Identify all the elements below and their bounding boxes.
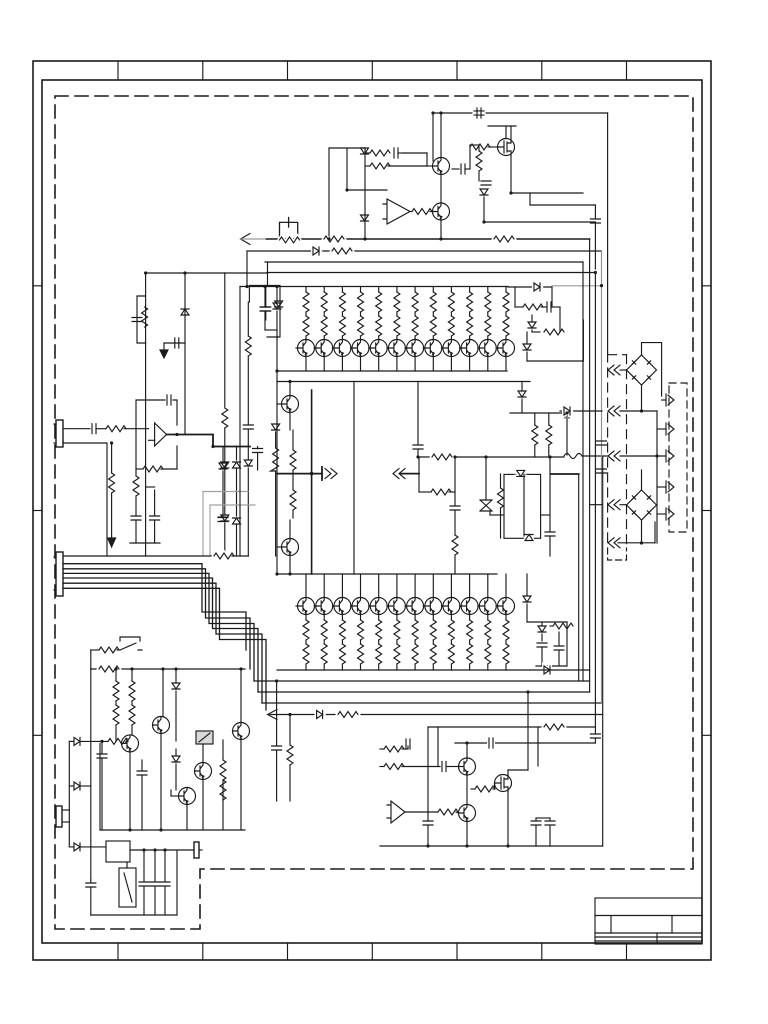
resistor R-sw1 xyxy=(99,647,119,653)
wire e-in2 xyxy=(380,766,384,768)
wire col 163 xyxy=(162,669,164,717)
harness wire 6 xyxy=(63,588,266,710)
bus low 1 xyxy=(254,680,590,682)
resistor R-t11 xyxy=(487,287,489,293)
transistor Q-t4 xyxy=(352,340,369,357)
wire bias mid xyxy=(346,148,348,190)
title block row line 3 xyxy=(595,936,702,938)
wire inv in xyxy=(149,439,155,441)
resistor R-c275 xyxy=(273,448,279,468)
transistor Q-bl1 xyxy=(122,735,139,752)
resistor R-bl1 xyxy=(289,715,291,746)
wire mid node xyxy=(469,145,471,169)
resistor R-b1 xyxy=(324,236,344,242)
diode D-c236b xyxy=(233,518,241,524)
transistor Q-top2 xyxy=(433,203,450,220)
wire left drop xyxy=(145,273,147,556)
wire top left rail xyxy=(146,272,268,274)
wire row rail ext xyxy=(508,286,552,288)
top zone tick 6 xyxy=(541,61,543,80)
bus line 1 gray stub xyxy=(241,238,267,240)
wire col 241 xyxy=(240,669,242,723)
diode D-c225b xyxy=(221,515,229,521)
resistor R-b3 xyxy=(332,248,352,254)
resistor R-rt2 xyxy=(532,331,540,333)
wire 670 ext xyxy=(530,669,590,671)
harness wire 0 xyxy=(63,555,212,557)
chevron r4 xyxy=(657,486,666,488)
bus line 1 xyxy=(267,238,590,240)
transistor Q-t6 xyxy=(388,340,405,357)
capacitor C-br2 xyxy=(558,632,560,645)
resistor R-m2 xyxy=(419,491,431,493)
transistor Q-e1 xyxy=(459,758,476,775)
chevron c2 xyxy=(608,406,620,416)
op-amp U-left xyxy=(155,423,167,446)
resistor R-bt7 xyxy=(414,615,416,621)
wire bus4 drop xyxy=(266,272,268,275)
wire 550 col xyxy=(549,457,551,531)
sub box xyxy=(504,474,541,538)
capacitor C-r1 xyxy=(594,205,596,218)
wire opamp out xyxy=(410,211,412,213)
title block outline xyxy=(595,898,702,944)
resistor R-m6 xyxy=(548,413,550,425)
wire J1 low xyxy=(63,443,107,556)
wire Qe1-Qe2 xyxy=(466,775,468,805)
transistor Q-b7 xyxy=(414,574,416,598)
chevron c5 xyxy=(608,538,620,548)
block bottom rail xyxy=(100,829,245,831)
transistor Q-bl5 xyxy=(179,788,196,805)
capacitor C-top xyxy=(474,111,484,115)
bottom zone tick 4 xyxy=(371,943,373,960)
wire 657 col xyxy=(656,411,658,543)
wire Q1-Q2 xyxy=(440,175,442,204)
transistor Q-t12 xyxy=(498,340,515,357)
wire 418 col xyxy=(417,382,419,445)
connector J3 xyxy=(56,806,62,827)
wire e-in1 xyxy=(380,748,384,750)
wire sw rail2 xyxy=(91,668,245,670)
capacitor C-lt xyxy=(132,318,142,322)
transistor Q-b11 xyxy=(487,574,489,598)
resistor R-i1 xyxy=(478,145,480,151)
top zone tick 3 xyxy=(287,61,289,80)
wire sw rail xyxy=(91,649,99,651)
right zone tick 2 xyxy=(702,510,711,512)
capacitor C-bl6 xyxy=(154,850,156,881)
harness wire 5 xyxy=(63,583,262,703)
wire QL2 e xyxy=(289,556,291,575)
resistor R-br1 xyxy=(550,625,553,627)
harness wire 1 xyxy=(63,564,246,650)
wire to box xyxy=(527,360,583,362)
wire BR2 top xyxy=(641,470,643,490)
wire QbL1 e xyxy=(129,752,131,830)
cap top col248 xyxy=(243,425,253,429)
wire opamp in xyxy=(347,189,387,191)
feedback wire xyxy=(136,400,177,469)
wire gnd bar xyxy=(130,542,160,544)
rail 743 xyxy=(455,742,595,744)
resistor R-m3 xyxy=(452,535,458,555)
gray wire 1 xyxy=(203,491,248,493)
wire QL1 e xyxy=(289,413,291,431)
diode D-bias1 xyxy=(361,148,369,154)
plug P1 xyxy=(194,842,199,858)
transistor Q-b1 xyxy=(305,574,307,598)
diode D-rt2 xyxy=(531,315,533,322)
wire BR2 bot xyxy=(618,520,655,543)
wire 567 drop xyxy=(566,415,568,455)
wire bias top xyxy=(329,147,365,149)
left col 240 xyxy=(239,287,241,557)
wavy resistor xyxy=(564,454,582,459)
wire Q1 collector xyxy=(440,113,442,158)
top zone tick 1 xyxy=(117,61,119,80)
capacitor C-gnd xyxy=(175,338,179,348)
resistor R-bt2 xyxy=(323,615,325,621)
wire base rail xyxy=(388,165,427,167)
relay K1 xyxy=(119,868,136,907)
mosfet Q-fet xyxy=(498,139,515,156)
harness wire 4 xyxy=(63,578,258,692)
diode D-c236a xyxy=(233,462,241,468)
capacitor C-r2 xyxy=(597,441,607,445)
resistor R-bt10 xyxy=(469,615,471,621)
resistor R-fb3 xyxy=(136,468,143,470)
wire drop from top rail xyxy=(432,113,434,161)
diode D-br2 xyxy=(538,626,546,632)
capacitor C-rt1 xyxy=(547,302,551,312)
resistor R-m1 xyxy=(432,454,452,460)
wire K1 top xyxy=(126,862,128,868)
wire hcap node xyxy=(484,221,595,223)
bus line 3 xyxy=(265,261,583,263)
right zone tick 3 xyxy=(702,734,711,736)
wire top rail xyxy=(433,112,608,114)
rail 413 xyxy=(510,412,570,414)
resistor R-bt1 xyxy=(305,615,307,621)
bottom rail xyxy=(277,669,530,671)
transistor Q-bl3 xyxy=(233,723,250,740)
transistor Q-L2 xyxy=(282,539,299,556)
transistor Q-t10 xyxy=(461,340,478,357)
box edge v xyxy=(582,320,584,361)
op-amp U-e xyxy=(387,801,405,823)
wire bottom in xyxy=(69,846,73,848)
resistor R-fb1 xyxy=(365,152,370,154)
title block column line 3 xyxy=(656,933,658,944)
wire left col xyxy=(90,650,92,880)
mid rail 1 xyxy=(277,370,507,372)
wire rt drop xyxy=(514,287,516,307)
transistor Q-b6 xyxy=(396,574,398,598)
connector J1 xyxy=(56,420,63,447)
resistor R-h0 xyxy=(214,553,234,559)
wire 538 col xyxy=(537,727,539,766)
wire QbL5 e xyxy=(186,805,188,831)
wire BR1 bot xyxy=(641,385,643,411)
diode D-rt3 xyxy=(523,344,531,350)
capacitor C-br1 xyxy=(537,643,547,647)
capacitor C-bl7 xyxy=(164,850,166,881)
resistor R-bt11 xyxy=(487,615,489,621)
resistor R-rt1 xyxy=(515,306,523,308)
resistor R-fb2 xyxy=(365,165,370,167)
wire e caps top xyxy=(536,817,550,819)
mid rail 457 xyxy=(418,456,564,458)
capacitor C-bl5 xyxy=(143,850,145,881)
resistor R-m4 xyxy=(500,474,502,488)
capacitor C-m2 xyxy=(450,506,460,510)
resistor R-e3 xyxy=(384,764,404,770)
wire chev link xyxy=(401,473,419,475)
title block row line 4 xyxy=(595,940,702,942)
wire Q1 base xyxy=(427,165,433,167)
resistor R-lt xyxy=(142,307,148,327)
wire QL2 base xyxy=(277,546,282,548)
top zone tick 2 xyxy=(202,61,204,80)
resistor R-b2 xyxy=(494,236,514,242)
wire BR2 left xyxy=(590,504,602,506)
T bar xyxy=(321,467,323,480)
wire 567 col xyxy=(566,622,568,666)
bottom rail xyxy=(91,914,177,916)
diode D-c248 xyxy=(247,430,249,460)
small box top xyxy=(249,286,280,338)
diode D-bl3 xyxy=(175,749,177,756)
bus line 2 xyxy=(247,250,602,252)
capacitor C-i1 xyxy=(452,168,459,170)
top zone tick 4 xyxy=(371,61,373,80)
capacitor C-e7 xyxy=(549,818,551,820)
transistor Q-b12 xyxy=(505,574,507,598)
dashed corner xyxy=(608,354,627,356)
wire fet drain bracket xyxy=(488,126,516,139)
transistor Q-t8 xyxy=(425,340,442,357)
transistor Q-b2 xyxy=(323,574,325,598)
diode D-bias2 xyxy=(361,215,369,221)
bottom zone tick 3 xyxy=(287,943,289,960)
wire J1 out xyxy=(63,428,90,430)
wire bias left xyxy=(328,148,330,239)
resistor R-e5 xyxy=(438,809,458,815)
transistor Q-top1 xyxy=(433,158,450,175)
heavy right link xyxy=(551,473,579,475)
capacitor C-m4 xyxy=(565,408,569,418)
wire box mid xyxy=(523,474,525,536)
capacitor C-bl2 xyxy=(101,741,103,753)
wire zener drop xyxy=(184,273,186,343)
dashed u bottom xyxy=(608,548,627,560)
wire QbL2 e xyxy=(160,734,162,831)
capacitor C-el xyxy=(288,218,290,228)
block top rail xyxy=(428,726,595,728)
diode D-bl2 xyxy=(74,737,80,745)
chevron in xyxy=(393,469,405,479)
gray wire 3 xyxy=(210,505,255,556)
wire QL1 base xyxy=(277,403,282,405)
chevron r2 xyxy=(657,428,666,430)
bottom zone tick 7 xyxy=(626,943,628,960)
wire bus2 drop xyxy=(246,251,248,287)
connector J2 xyxy=(56,552,63,596)
ground arrow 2 xyxy=(108,538,116,547)
diode D-cb xyxy=(276,287,278,304)
resistor R-in xyxy=(106,426,126,432)
resistor R-bl3 xyxy=(131,669,133,681)
resistor R-bt8 xyxy=(432,615,434,621)
diode D-bl1 xyxy=(175,669,177,683)
dashed conn box xyxy=(669,383,687,532)
wire 578 drop xyxy=(578,474,580,681)
chevron r1 xyxy=(662,399,666,401)
title block column line 2 xyxy=(671,916,673,934)
resistor R-m5 xyxy=(534,413,536,425)
diode D-bl5 xyxy=(74,843,80,851)
wire Q2 emitter xyxy=(440,220,442,239)
wire QL2 c xyxy=(289,520,291,539)
wire void col xyxy=(353,382,355,575)
resistor R-lo1 xyxy=(135,469,137,476)
bottom zone tick 5 xyxy=(456,943,458,960)
wire col 236 xyxy=(236,447,238,461)
left zone tick 2 xyxy=(33,510,42,512)
resistor R-bt4 xyxy=(360,615,362,621)
wire 419 drop xyxy=(418,457,420,492)
capacitor C-m3 xyxy=(545,532,555,536)
bus arrow left xyxy=(241,234,251,245)
bridge BR1 xyxy=(627,355,657,385)
resistor R-c293 xyxy=(292,430,294,450)
resistor R-gate xyxy=(470,144,490,150)
bundle v3 xyxy=(594,273,596,728)
resistor R-bt5 xyxy=(378,615,380,621)
wire 276 drop xyxy=(276,681,278,745)
capacitor C-e1 xyxy=(594,727,596,733)
capacitor C-i2 xyxy=(481,181,491,185)
resistor R-t7 xyxy=(414,287,416,293)
wire Qe1 c xyxy=(466,743,468,758)
capacitor C-lo1 xyxy=(131,516,141,520)
diode D-br1 xyxy=(526,574,528,596)
resistor R-e1 xyxy=(544,724,564,730)
wire bus3 drop xyxy=(267,262,269,286)
wire diode 522 xyxy=(521,382,523,392)
zener D-lt xyxy=(181,309,189,315)
left edge col xyxy=(276,330,278,574)
wire QL1 c xyxy=(289,382,291,396)
chevron c4 xyxy=(608,500,620,510)
transistor Q-t7 xyxy=(407,340,424,357)
resistor R-e4 xyxy=(471,788,475,790)
bus low 3 xyxy=(262,702,602,704)
resistor R-t1 xyxy=(305,287,307,293)
resistor R-bl2 xyxy=(115,669,117,681)
diode col A xyxy=(222,447,224,464)
diode D-bx xyxy=(275,301,283,307)
wire fet source xyxy=(510,156,512,194)
left zone tick 3 xyxy=(33,734,42,736)
wire J1 low2 xyxy=(62,440,64,443)
diode D-br3 xyxy=(544,666,550,674)
capacitor C-m1 xyxy=(413,445,423,449)
wire fet top xyxy=(510,126,512,138)
wire fet d xyxy=(507,770,509,775)
wire box out xyxy=(541,514,550,516)
wire rt mid xyxy=(526,332,528,344)
capacitor C-fb xyxy=(394,148,398,158)
capacitor C-e2 xyxy=(489,738,493,748)
transistor Q-b5 xyxy=(378,574,380,598)
wire QbL3 e xyxy=(240,740,242,831)
capacitor C-bl4 xyxy=(90,880,92,882)
harness wire 2 xyxy=(63,569,250,669)
capacitor C-bx xyxy=(261,307,271,311)
bundle v5 xyxy=(602,457,604,846)
resistor R-bus4 xyxy=(338,712,358,718)
wire J3 a xyxy=(62,809,69,811)
chevron c1 xyxy=(608,365,620,375)
wire QbL1 in xyxy=(69,740,73,742)
RC bracket xyxy=(137,296,146,343)
resistor R-bl5 xyxy=(222,740,224,760)
resistor R-t2 xyxy=(323,287,325,293)
transistor Q-b4 xyxy=(360,574,362,598)
wire gnd link xyxy=(164,342,185,344)
resistor R-t3 xyxy=(341,287,343,293)
op-amp U-top xyxy=(383,199,410,224)
wire left drop xyxy=(68,741,70,847)
resistor R-sw2 xyxy=(99,666,119,672)
title block row line 2 xyxy=(595,932,702,934)
wire bias right xyxy=(364,148,366,239)
diode D-bus4 xyxy=(317,711,323,719)
resistor R-t5 xyxy=(378,287,380,293)
cap col 265 xyxy=(264,287,266,307)
wire QbL5 base xyxy=(171,795,179,797)
transistor Q-t2 xyxy=(316,340,333,357)
rail 411 xyxy=(560,410,602,412)
top zone tick 7 xyxy=(626,61,628,80)
transistor Q-bl2 xyxy=(153,717,170,734)
capacitor C-e6 xyxy=(535,818,537,820)
diode D-b1 xyxy=(313,247,319,255)
resistor R-bt3 xyxy=(341,615,343,621)
capacitor C-cA xyxy=(218,518,228,522)
diode D-m2 xyxy=(525,535,533,541)
wire 177 col xyxy=(176,850,178,915)
wire opto xyxy=(202,744,204,763)
capacitor C-c257 xyxy=(257,447,259,449)
block left edge xyxy=(99,743,101,830)
bus low 2 xyxy=(258,691,590,693)
bottom zone tick 1 xyxy=(117,943,119,960)
wire col 225 xyxy=(224,273,226,407)
lower rail xyxy=(277,573,497,575)
switch S1 xyxy=(120,637,142,650)
wire 455 col xyxy=(454,457,456,505)
mid rail 457b xyxy=(582,455,608,457)
resistor R-t9 xyxy=(450,287,452,293)
outer border frame xyxy=(33,61,711,960)
transistor Q-t1 xyxy=(298,340,315,357)
resistor R-bt12 xyxy=(505,615,507,621)
ground arrow xyxy=(163,343,165,350)
rail 622 xyxy=(527,621,567,623)
